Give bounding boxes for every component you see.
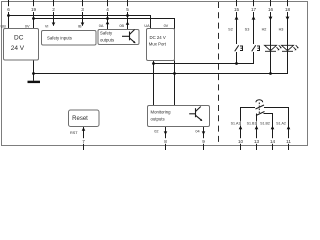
svg-text:0B: 0B <box>119 24 124 28</box>
svg-text:Safety: Safety <box>100 31 113 36</box>
svg-text:18: 18 <box>285 7 291 12</box>
svg-text:outputs: outputs <box>151 116 165 121</box>
svg-text:13: 13 <box>254 139 260 144</box>
svg-text:UA: UA <box>144 24 150 28</box>
svg-text:14: 14 <box>270 139 276 144</box>
svg-text:H3: H3 <box>279 27 284 31</box>
svg-text:15: 15 <box>234 7 240 12</box>
svg-text:4: 4 <box>106 7 109 12</box>
svg-text:04: 04 <box>195 129 199 133</box>
svg-text:17: 17 <box>251 7 257 12</box>
svg-text:0V: 0V <box>25 25 30 29</box>
svg-text:3: 3 <box>81 7 84 12</box>
svg-text:11: 11 <box>286 139 291 144</box>
svg-text:DC 24 V: DC 24 V <box>150 35 166 40</box>
svg-text:6: 6 <box>7 7 10 12</box>
svg-text:RST: RST <box>70 131 78 135</box>
svg-text:5: 5 <box>126 7 129 12</box>
svg-text:9: 9 <box>202 139 205 144</box>
svg-text:S1.A2: S1.A2 <box>276 122 286 126</box>
svg-text:Reset: Reset <box>72 116 88 122</box>
svg-text:S1.B2: S1.B2 <box>260 122 270 126</box>
svg-text:UB: UB <box>1 25 7 29</box>
svg-text:S1.A1: S1.A1 <box>231 122 241 126</box>
svg-text:S2: S2 <box>228 27 233 31</box>
svg-text:16: 16 <box>268 7 274 12</box>
svg-text:Monitoring: Monitoring <box>151 109 172 114</box>
svg-text:Mux Port: Mux Port <box>149 42 167 47</box>
svg-text:0V: 0V <box>164 24 169 28</box>
svg-text:VI: VI <box>45 25 49 29</box>
svg-text:10: 10 <box>238 139 244 144</box>
svg-text:H2: H2 <box>262 27 267 31</box>
svg-text:outputs: outputs <box>100 37 114 42</box>
svg-text:19: 19 <box>31 7 37 12</box>
svg-text:IB: IB <box>78 25 82 29</box>
svg-text:02: 02 <box>154 129 158 133</box>
svg-text:2: 2 <box>52 7 55 12</box>
svg-text:Safety inputs: Safety inputs <box>47 36 72 41</box>
svg-text:7: 7 <box>82 139 85 144</box>
svg-text:S3: S3 <box>245 27 250 31</box>
svg-text:DC: DC <box>14 35 24 42</box>
svg-text:24 V: 24 V <box>11 45 25 52</box>
svg-text:0A: 0A <box>99 24 104 28</box>
svg-text:8: 8 <box>164 139 167 144</box>
svg-text:S1.B1: S1.B1 <box>247 122 257 126</box>
